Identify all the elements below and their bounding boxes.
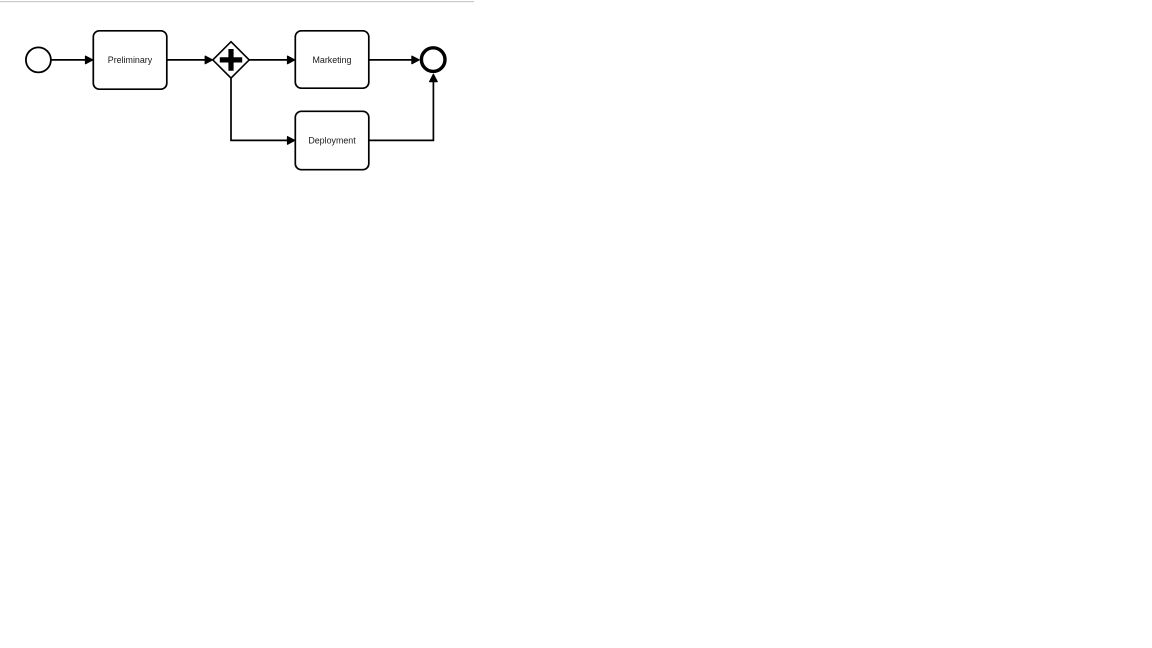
sequence flow: Marketing to end event xyxy=(369,56,419,64)
sequence flow: gateway to Marketing xyxy=(249,56,295,64)
divider line top xyxy=(0,1,474,3)
sequence flow: start to Preliminary xyxy=(51,56,93,64)
parallel gateway xyxy=(213,42,249,78)
sequence flow: Deployment to end event xyxy=(369,74,437,140)
sequence flow: gateway to Deployment xyxy=(231,78,295,144)
svg-text:Marketing: Marketing xyxy=(313,55,352,65)
task Marketing xyxy=(295,31,369,88)
task Deployment xyxy=(295,111,369,169)
sequence flow: Preliminary to gateway xyxy=(167,56,213,64)
start event xyxy=(26,47,51,72)
task Preliminary xyxy=(93,31,167,89)
svg-text:Preliminary: Preliminary xyxy=(108,55,153,65)
end event xyxy=(421,48,445,72)
svg-text:Deployment: Deployment xyxy=(308,136,356,146)
